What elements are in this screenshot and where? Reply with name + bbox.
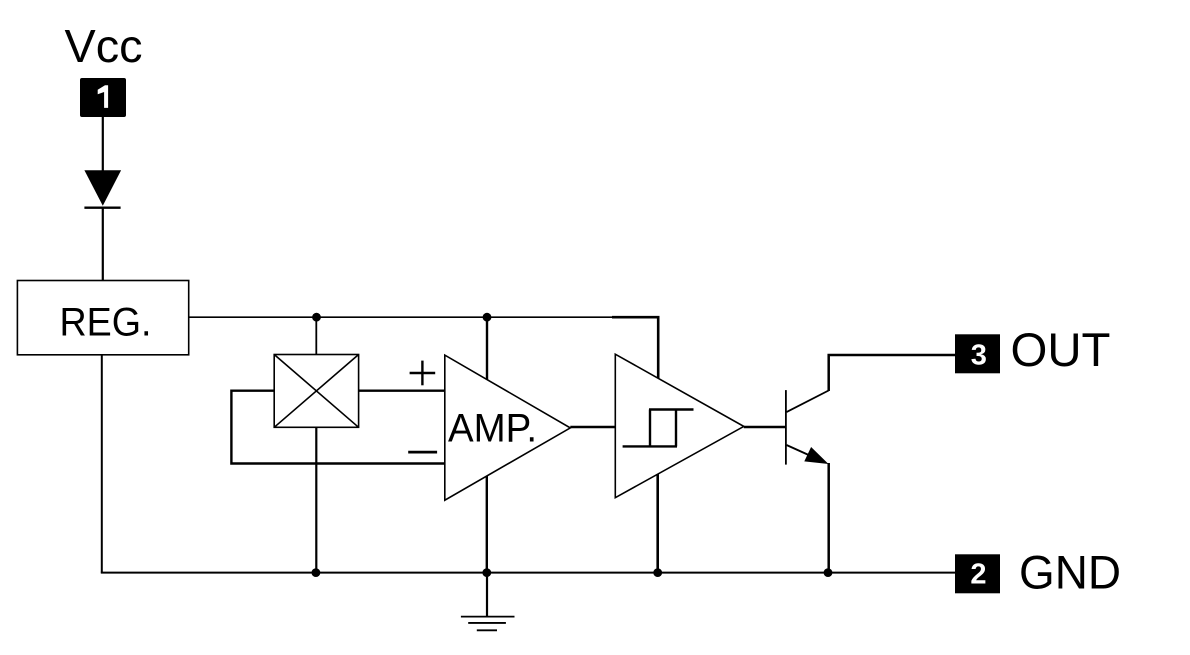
svg-text:AMP.: AMP. [448, 406, 537, 450]
svg-text:Vcc: Vcc [65, 20, 143, 72]
svg-text:REG.: REG. [60, 301, 152, 345]
svg-text:2: 2 [970, 559, 986, 591]
svg-text:OUT: OUT [1011, 323, 1111, 376]
svg-text:GND: GND [1019, 546, 1121, 599]
svg-text:3: 3 [971, 340, 987, 372]
